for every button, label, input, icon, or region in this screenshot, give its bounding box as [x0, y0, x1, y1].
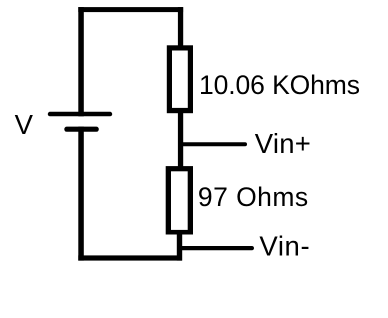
battery V: negative plate (short) [64, 127, 99, 132]
resistor R2 body (box symbol) [166, 166, 193, 234]
svg-text:97 Ohms: 97 Ohms [198, 182, 309, 212]
wire: top horizontal rail from battery positive to R1 [78, 7, 183, 12]
wire: bottom horizontal rail [78, 255, 182, 260]
node Vin+: tap wire from divider midpoint [180, 142, 247, 146]
wire: R2 pin 2 down to bottom rail [177, 234, 182, 261]
resistor R1 body (box symbol) [167, 45, 193, 113]
svg-text:Vin-: Vin- [259, 231, 310, 262]
wire: left vertical lead from battery negative plate down to bottom rail [78, 127, 84, 261]
svg-text:V: V [15, 109, 34, 140]
wire: right vertical lead from top rail into R1 pin 1 [178, 7, 183, 49]
svg-text:10.06 KOhms: 10.06 KOhms [199, 70, 360, 100]
wire: R1 pin 2 to R2 pin 1 [178, 112, 183, 168]
battery V: positive plate (long) [48, 112, 112, 117]
wire: left vertical lead from top rail down to battery positive plate [78, 7, 84, 116]
svg-text:Vin+: Vin+ [255, 128, 311, 159]
node Vin-: tap wire from low side of divider [180, 246, 254, 250]
